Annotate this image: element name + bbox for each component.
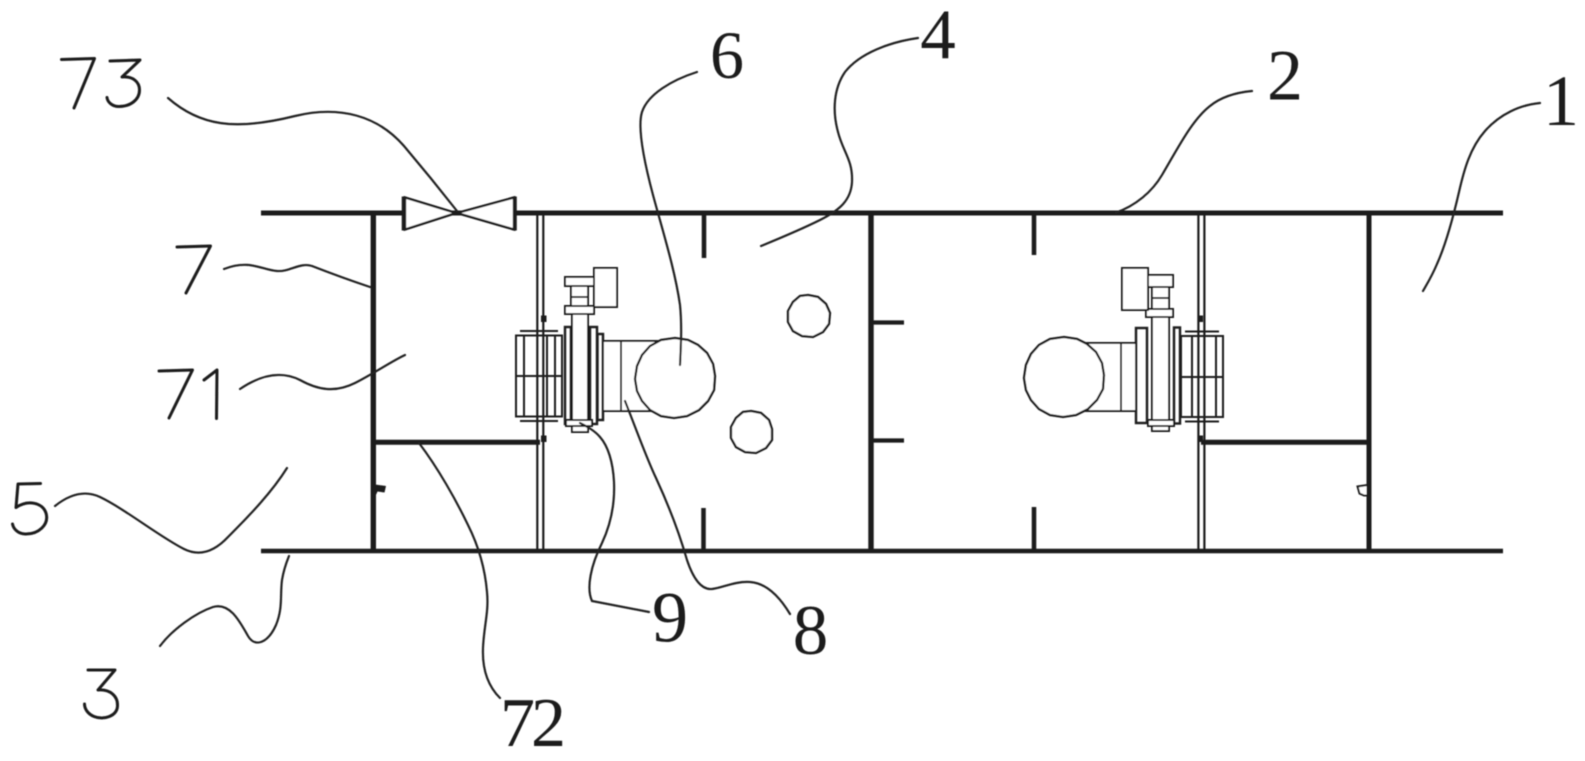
label 5 — [13, 484, 47, 535]
leader 4 — [761, 38, 918, 246]
cylinder body — [1080, 343, 1136, 411]
leader 6 — [640, 72, 697, 365]
right small flag arrow on right wall — [1358, 485, 1368, 496]
leader 9 — [580, 423, 649, 612]
left shelf — [371, 440, 540, 445]
left pump assembly — [516, 268, 660, 432]
left flange plates — [1136, 328, 1147, 423]
leader 1 — [1423, 103, 1540, 291]
label 3 — [85, 670, 118, 718]
right pump assembly — [1080, 268, 1223, 431]
right wall — [1367, 212, 1372, 553]
tick above bottom line left — [701, 508, 706, 550]
top flange — [565, 306, 594, 314]
leader 5 — [55, 468, 287, 553]
leader 7 — [224, 265, 370, 287]
tick horizontal lower on middle wall — [873, 438, 904, 442]
middle wall — [868, 212, 873, 553]
svg-text:1: 1 — [1543, 61, 1579, 141]
left flange plate — [565, 327, 571, 424]
right flange plate — [1174, 328, 1180, 424]
neck — [1152, 287, 1169, 309]
leader 71 — [240, 355, 405, 389]
left small flag arrow on left wall — [375, 485, 386, 497]
tick below top line right — [1032, 215, 1037, 255]
top left box — [1122, 268, 1148, 310]
top wall line — [261, 211, 1503, 216]
right flange plates — [590, 327, 597, 424]
bottom flange — [566, 420, 592, 426]
cylinder body — [603, 341, 660, 411]
svg-text:9: 9 — [652, 578, 688, 658]
thin CAD-style digit labels — [13, 59, 218, 718]
svg-text:6: 6 — [710, 17, 744, 93]
svg-text:2: 2 — [1267, 36, 1303, 116]
neck — [571, 286, 588, 306]
serif digit labels — [500, 0, 1579, 761]
top right box — [594, 268, 617, 307]
leader 8 — [625, 401, 790, 614]
leader 2 — [1116, 91, 1252, 213]
leader 72 — [419, 443, 500, 698]
top cap — [1146, 275, 1173, 287]
leader 3 — [160, 556, 289, 646]
leader 73 — [168, 98, 457, 211]
valve 73 symbol — [404, 197, 515, 231]
small circle upper — [788, 295, 830, 337]
shaft — [572, 314, 588, 432]
big circle right — [1024, 337, 1104, 417]
label 73 — [62, 59, 95, 109]
tick above bottom line right — [1032, 507, 1037, 550]
top cap — [565, 277, 594, 286]
partition nub lower left — [541, 436, 547, 443]
label 71 — [159, 370, 193, 418]
tick horizontal upper on middle wall — [873, 320, 904, 324]
left partition double line — [536, 214, 538, 549]
partition nub upper left — [541, 316, 547, 323]
small circle lower — [731, 411, 772, 453]
bottom flange — [1148, 420, 1174, 426]
tick below top line left — [702, 215, 707, 258]
motor block — [516, 336, 562, 417]
label 7 — [177, 246, 211, 293]
partition nub upper right — [1198, 316, 1204, 323]
shaft — [1152, 314, 1169, 431]
big circle left (item 6) — [635, 338, 715, 418]
left wall — [371, 211, 376, 554]
svg-text:72: 72 — [500, 685, 563, 761]
partition nub lower right — [1198, 436, 1204, 443]
svg-text:4: 4 — [920, 0, 956, 74]
top flange — [1146, 309, 1173, 317]
bottom wall line — [261, 549, 1503, 554]
motor block — [1181, 336, 1223, 417]
svg-text:8: 8 — [793, 592, 829, 670]
right partition double line — [1197, 214, 1199, 549]
right shelf — [1201, 440, 1371, 445]
